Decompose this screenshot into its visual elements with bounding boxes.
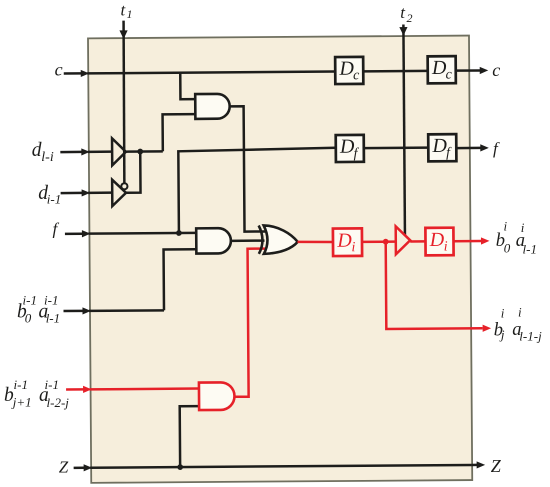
wire XOR output to Di1 (red) xyxy=(297,240,333,243)
svg-text:Z: Z xyxy=(59,458,69,477)
wire c output with arrow xyxy=(456,69,480,72)
svg-text:f: f xyxy=(53,220,60,239)
wire b_0 output with arrow (red) xyxy=(453,240,481,243)
svg-text:i: i xyxy=(518,305,522,320)
buffer latch B1 (d_l-i, clocked by t1) xyxy=(112,138,126,165)
svg-text:i-1: i-1 xyxy=(45,377,59,392)
wire buffer B2 output joining node xyxy=(126,152,141,193)
AND gate G3 (red) xyxy=(199,382,235,410)
AND gate G1 (top) xyxy=(195,94,230,119)
buffer B3 (red, clocked by t2) xyxy=(396,226,411,254)
wire tap from c line down to AND1 input 1 xyxy=(180,73,194,100)
wire riser b0 line to AND2 input 2 xyxy=(164,249,196,310)
svg-text:l-2-j: l-2-j xyxy=(47,395,70,410)
svg-text:l-1-j: l-1-j xyxy=(519,329,542,344)
wire f input with arrow xyxy=(65,232,82,235)
svg-text:c: c xyxy=(492,60,500,80)
register Di1 (red) xyxy=(333,228,362,256)
register Df1 xyxy=(336,135,364,162)
AND gate G2 (middle) xyxy=(196,228,231,253)
register Dc1 xyxy=(335,57,363,84)
wire G1 output down to XOR input 1 xyxy=(230,106,266,232)
svg-text:0: 0 xyxy=(504,241,511,256)
register Dc2 xyxy=(428,56,456,83)
wire f riser to Df1 xyxy=(178,148,336,233)
wire b_j+1/a_l-2-j red input with arrow xyxy=(66,388,84,391)
svg-text:l-1: l-1 xyxy=(46,311,60,326)
svg-text:0: 0 xyxy=(25,310,32,325)
wire riser Z line to AND3 input 2 xyxy=(180,406,200,467)
wire buffer B1 output to riser xyxy=(126,150,163,153)
junction dot red feedback xyxy=(383,239,389,245)
register Df2 xyxy=(428,134,456,161)
svg-text:t: t xyxy=(400,3,406,22)
svg-text:c: c xyxy=(353,68,360,83)
svg-text:i: i xyxy=(504,219,508,234)
clock line t1 with arrow xyxy=(123,21,125,183)
wire Z input with arrow xyxy=(74,467,84,470)
wire f between Df1 and Df2 xyxy=(364,146,428,149)
svg-text:Z: Z xyxy=(491,456,502,476)
wire d_l-i input with arrow xyxy=(60,151,81,154)
wire G3 output riser to XOR input 3 xyxy=(233,249,266,397)
junction dot buffers node xyxy=(137,149,143,155)
cell body (beige background box) xyxy=(88,36,472,483)
svg-text:i-1: i-1 xyxy=(14,377,28,392)
svg-text:i: i xyxy=(501,305,505,320)
wire from buffers node up to AND1 input 2 xyxy=(163,114,195,151)
wire d_i-1 input with arrow xyxy=(61,192,82,195)
clock line t2 with arrow xyxy=(403,25,405,236)
svg-text:1: 1 xyxy=(127,7,133,21)
svg-text:l-i: l-i xyxy=(41,150,54,165)
wire B3 output to Di2 xyxy=(410,240,425,243)
svg-text:i-1: i-1 xyxy=(23,293,37,308)
wire G2 output to XOR input 2 xyxy=(231,239,265,242)
inverting buffer latch B2 (d_i-1) xyxy=(112,180,126,207)
wire c input with arrow xyxy=(64,72,335,74)
junction dot on f line xyxy=(176,230,182,236)
svg-text:i-1: i-1 xyxy=(47,192,61,207)
wire f output with arrow xyxy=(456,147,480,150)
wire red feedback drop to b_j output with arrow xyxy=(386,241,483,329)
wire Z output with arrow xyxy=(472,464,477,467)
svg-text:i-1: i-1 xyxy=(44,293,58,308)
svg-text:c: c xyxy=(446,67,453,82)
wire Di1 to red buffer xyxy=(362,240,396,243)
svg-text:l-1: l-1 xyxy=(523,241,537,256)
wire c between Dc1 and Dc2 xyxy=(363,70,427,73)
svg-text:j+1: j+1 xyxy=(11,395,32,410)
svg-text:f: f xyxy=(493,139,500,158)
svg-text:i: i xyxy=(444,240,448,255)
svg-text:D: D xyxy=(429,229,445,251)
svg-text:i: i xyxy=(521,220,525,235)
svg-text:c: c xyxy=(55,59,63,79)
svg-text:d: d xyxy=(32,140,42,161)
svg-text:i: i xyxy=(351,240,355,255)
svg-text:D: D xyxy=(336,230,352,252)
svg-text:2: 2 xyxy=(407,11,413,25)
register Di2 (red) xyxy=(425,228,453,256)
XOR gate X1 xyxy=(264,225,298,254)
wire b0/a_l-1 input with arrow xyxy=(63,310,82,313)
junction dot on Z line xyxy=(177,464,183,470)
clock bubble on B2 xyxy=(121,183,127,189)
